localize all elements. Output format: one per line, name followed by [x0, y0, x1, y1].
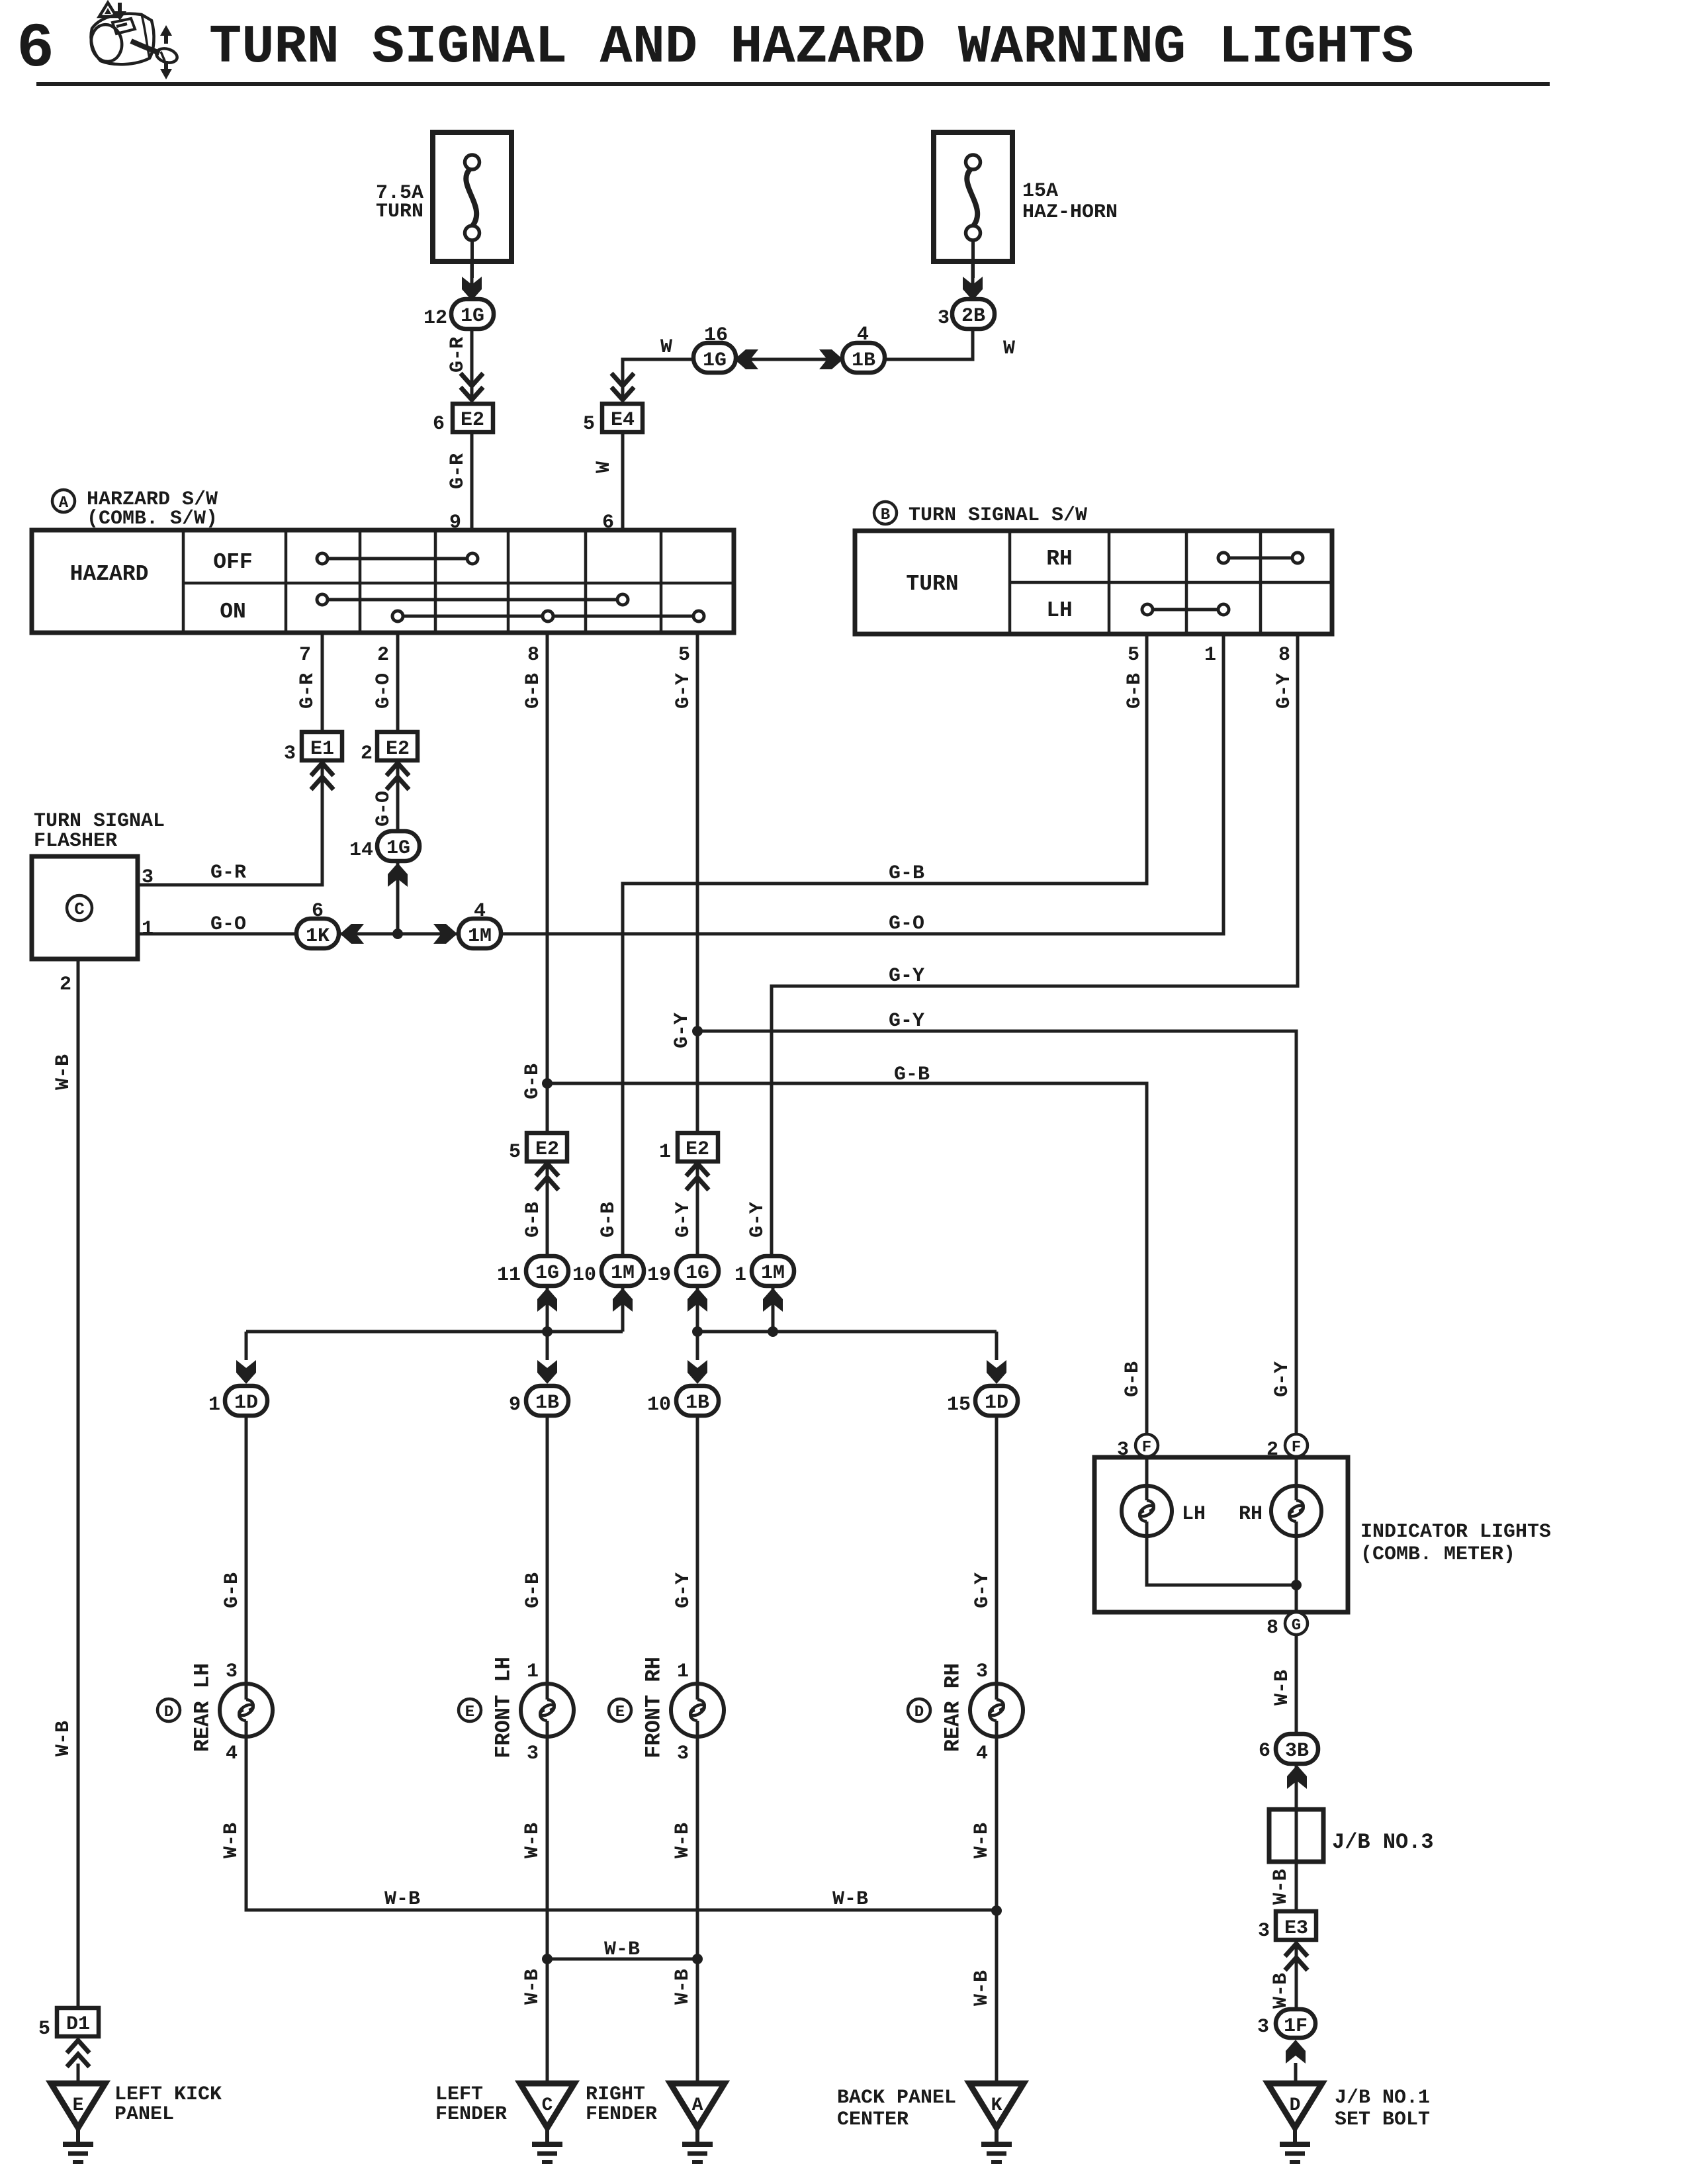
svg-text:W-B: W-B [1271, 1670, 1294, 1706]
svg-text:REAR LH: REAR LH [191, 1663, 215, 1752]
chevron into E2 [386, 763, 409, 790]
svg-text:3: 3 [527, 1743, 539, 1765]
arrow into 1M [613, 1288, 633, 1312]
chevron into E3 [1285, 1944, 1308, 1970]
svg-text:TURN SIGNAL AND HAZARD WARNING: TURN SIGNAL AND HAZARD WARNING LIGHTS [209, 17, 1414, 78]
svg-text:G-Y: G-Y [971, 1572, 994, 1608]
wire hazard pin2 to E2 [396, 633, 400, 733]
svg-text:K: K [991, 2095, 1002, 2116]
svg-text:J/B NO.3: J/B NO.3 [1332, 1830, 1434, 1854]
wire E2 down to junction [396, 760, 400, 934]
title underline [36, 82, 1550, 86]
title icon (combination switch drawing) [88, 3, 179, 65]
svg-text:G-B: G-B [522, 1572, 545, 1608]
svg-text:G-Y: G-Y [672, 1572, 695, 1608]
svg-text:2: 2 [60, 974, 71, 996]
svg-text:W-B: W-B [521, 1823, 544, 1858]
svg-text:LEFT KICK: LEFT KICK [114, 2083, 222, 2106]
svg-text:8: 8 [1278, 644, 1290, 666]
svg-text:2: 2 [361, 743, 373, 765]
svg-text:15: 15 [947, 1394, 971, 1416]
svg-text:G-B: G-B [894, 1064, 930, 1086]
svg-text:8: 8 [527, 644, 539, 666]
svg-text:W-B: W-B [384, 1888, 420, 1911]
svg-text:F: F [1292, 1439, 1301, 1457]
svg-text:3: 3 [677, 1743, 689, 1765]
wire front RH ground [696, 1737, 699, 2083]
svg-text:2: 2 [377, 644, 389, 666]
svg-text:ON: ON [220, 600, 246, 624]
junction node left bus [542, 1326, 553, 1337]
svg-text:LH: LH [1046, 598, 1073, 623]
svg-text:3: 3 [976, 1661, 988, 1683]
wire fuse2 to 2B and across to E4 [623, 261, 973, 530]
svg-text:W-B: W-B [1270, 1869, 1292, 1905]
svg-text:HAZARD: HAZARD [70, 562, 149, 586]
svg-text:G-Y: G-Y [1273, 673, 1296, 709]
svg-text:1G: 1G [703, 349, 727, 372]
svg-text:1M: 1M [611, 1262, 635, 1285]
svg-text:3: 3 [142, 866, 154, 889]
svg-text:G-B: G-B [522, 1202, 545, 1238]
svg-text:1: 1 [142, 918, 154, 940]
junction node right bus 2 [768, 1326, 778, 1337]
fuse 15A HAZ-HORN [934, 132, 1012, 261]
svg-text:RH: RH [1046, 547, 1073, 571]
svg-text:10: 10 [572, 1264, 596, 1287]
wire fuse1 to hazard pin 9 [470, 261, 474, 530]
svg-text:C: C [74, 899, 85, 919]
svg-text:4: 4 [226, 1743, 238, 1765]
svg-text:RIGHT: RIGHT [586, 2083, 645, 2106]
svg-text:7: 7 [299, 644, 311, 666]
arrow into 1D [987, 1360, 1006, 1384]
turn RH contact row [1223, 557, 1298, 560]
svg-text:HAZ-HORN: HAZ-HORN [1022, 201, 1118, 224]
svg-text:5: 5 [1128, 644, 1139, 666]
lamp REAR LH bulb [157, 1699, 180, 1721]
arrow into 1B [537, 1360, 557, 1384]
svg-text:3B: 3B [1285, 1740, 1309, 1762]
svg-text:1D: 1D [234, 1392, 258, 1414]
wire G-Y branch to indicator RH [697, 1031, 1296, 1434]
arrow into 1G [688, 1288, 707, 1312]
svg-text:CENTER: CENTER [837, 2109, 909, 2131]
svg-text:8: 8 [1266, 1617, 1278, 1639]
wire hazard pin8 down [546, 633, 549, 1255]
indicator LH bulb [1122, 1486, 1172, 1536]
svg-text:4: 4 [976, 1743, 988, 1765]
svg-text:2B: 2B [961, 305, 985, 328]
svg-text:W-B: W-B [604, 1938, 640, 1961]
svg-text:E2: E2 [386, 738, 410, 760]
chevron into E2 [536, 1163, 558, 1190]
ground A right fender [670, 2083, 725, 2128]
wire front fender tie [547, 1958, 697, 1961]
svg-text:W-B: W-B [521, 1969, 544, 2005]
ground C left fender [520, 2083, 574, 2128]
svg-text:W: W [593, 461, 615, 473]
arrow into 1F [1286, 2040, 1306, 2064]
svg-text:G-R: G-R [447, 337, 469, 373]
wire G-B branch to indicator LH [547, 1083, 1147, 1434]
svg-text:E2: E2 [686, 1138, 709, 1161]
svg-text:1K: 1K [306, 925, 330, 948]
fuse 7.5A TURN [433, 132, 511, 261]
svg-text:G-O: G-O [373, 673, 395, 709]
svg-text:LEFT: LEFT [435, 2083, 483, 2106]
turn switch label [874, 502, 897, 524]
svg-text:10: 10 [647, 1394, 671, 1416]
ground K back panel center [969, 2083, 1024, 2128]
svg-text:12: 12 [423, 307, 447, 330]
wire flasher pin1 G-O run to turn pin1 [138, 634, 1223, 934]
svg-text:G-O: G-O [889, 913, 924, 935]
junction node right bus 1 [692, 1326, 703, 1337]
svg-text:W-B: W-B [52, 1721, 75, 1756]
svg-text:W-B: W-B [971, 1823, 993, 1858]
svg-text:G-B: G-B [522, 673, 545, 709]
svg-text:FRONT RH: FRONT RH [642, 1657, 666, 1758]
hazard OFF contact row [322, 557, 472, 561]
svg-text:W-B: W-B [971, 1970, 993, 2006]
wire rear RH ground [995, 1737, 999, 2083]
svg-text:LH: LH [1182, 1503, 1206, 1525]
svg-text:1: 1 [659, 1141, 671, 1163]
junction node G-B [542, 1078, 553, 1089]
svg-text:FRONT LH: FRONT LH [492, 1657, 516, 1758]
svg-text:1: 1 [734, 1264, 746, 1287]
svg-text:G-R: G-R [447, 453, 469, 489]
svg-text:5: 5 [678, 644, 690, 666]
svg-text:C: C [542, 2095, 553, 2116]
svg-text:3: 3 [1258, 1920, 1270, 1942]
svg-text:E2: E2 [461, 409, 484, 432]
junction node G-O [392, 929, 403, 939]
svg-text:E3: E3 [1284, 1917, 1308, 1940]
wire left bus [246, 1286, 623, 1360]
junction node front RH [692, 1954, 703, 1964]
svg-text:1B: 1B [535, 1392, 559, 1414]
junction node G-Y [692, 1026, 703, 1036]
wire E3 to 1F [1295, 1940, 1298, 2010]
svg-text:5: 5 [509, 1141, 521, 1163]
chevron into E2 (6) [461, 373, 483, 400]
svg-text:1M: 1M [761, 1262, 785, 1285]
svg-text:PANEL: PANEL [114, 2103, 174, 2126]
svg-text:TURN: TURN [906, 572, 958, 596]
wire G to 3B [1295, 1635, 1298, 1809]
svg-text:E1: E1 [310, 738, 334, 760]
svg-text:1: 1 [208, 1394, 220, 1416]
svg-text:1M: 1M [468, 925, 492, 948]
svg-text:1G: 1G [461, 305, 484, 328]
svg-text:INDICATOR LIGHTS: INDICATOR LIGHTS [1360, 1521, 1551, 1543]
arrow into 1G (12) [462, 277, 482, 300]
svg-text:D1: D1 [66, 2013, 90, 2036]
svg-text:G-B: G-B [1124, 673, 1146, 709]
junction node front LH [542, 1954, 553, 1964]
wire E1 down to flasher pin3 wire [138, 760, 322, 885]
svg-text:W-B: W-B [832, 1888, 868, 1911]
svg-text:OFF: OFF [213, 550, 252, 574]
wire rear LH ground [246, 1737, 997, 1910]
wire front LH ground [546, 1737, 549, 2083]
ground D J/B NO.1 set bolt [1268, 2083, 1322, 2128]
arrow into 3B [1287, 1765, 1307, 1789]
wire to lamp FRONT RH [696, 1416, 699, 1685]
svg-text:G: G [1292, 1617, 1301, 1635]
svg-text:FLASHER: FLASHER [34, 830, 117, 852]
wire hazard pin7 to E1 [321, 633, 324, 733]
arrow into 1M [763, 1288, 783, 1312]
svg-text:14: 14 [349, 839, 373, 862]
arrow into 1G [388, 863, 408, 887]
svg-text:G-Y: G-Y [746, 1202, 769, 1238]
wire indicator RH bulb [1295, 1457, 1298, 1612]
svg-text:1G: 1G [535, 1262, 559, 1285]
svg-text:BACK PANEL: BACK PANEL [837, 2087, 956, 2109]
svg-text:6: 6 [1259, 1740, 1270, 1762]
svg-text:9: 9 [509, 1394, 521, 1416]
svg-text:3: 3 [226, 1661, 238, 1683]
chevron into E4 (5) [611, 373, 634, 400]
svg-text:(COMB. METER): (COMB. METER) [1360, 1543, 1515, 1566]
indicator lights box [1094, 1457, 1348, 1612]
svg-text:1: 1 [527, 1661, 539, 1683]
svg-text:G-B: G-B [221, 1572, 244, 1608]
wire J/B3 to E3 [1295, 1862, 1298, 1912]
svg-text:E2: E2 [535, 1138, 559, 1161]
svg-text:11: 11 [497, 1264, 521, 1287]
wire 1F to ground D [1294, 2063, 1298, 2083]
svg-text:TURN: TURN [376, 201, 423, 223]
junction block J/B NO.3 [1269, 1809, 1323, 1862]
lamp FRONT LH bulb [459, 1699, 481, 1721]
hazard ON contact row lower [398, 615, 699, 618]
svg-text:G-B: G-B [598, 1202, 620, 1238]
wire to lamp FRONT LH [546, 1416, 549, 1685]
wire G-Y turn pin8 run [772, 634, 1298, 1255]
svg-text:1: 1 [677, 1661, 689, 1683]
svg-text:W-B: W-B [52, 1054, 75, 1090]
wire hazard pin5 down [696, 633, 699, 1255]
svg-text:REAR RH: REAR RH [941, 1663, 965, 1752]
lamp FRONT RH bulb [609, 1699, 631, 1721]
arrow into 1G [537, 1288, 557, 1312]
svg-text:G-Y: G-Y [889, 965, 924, 987]
svg-text:G-Y: G-Y [671, 1013, 693, 1048]
lamp REAR RH bulb [908, 1699, 930, 1721]
chevron into D1 [67, 2040, 89, 2067]
turn LH contact row [1147, 608, 1223, 612]
svg-text:E4: E4 [611, 409, 635, 432]
svg-text:5: 5 [38, 2018, 50, 2040]
svg-text:W-B: W-B [220, 1823, 243, 1858]
svg-text:1G: 1G [386, 837, 410, 860]
svg-text:G-B: G-B [521, 1064, 544, 1099]
svg-text:W: W [660, 336, 672, 359]
svg-text:1D: 1D [985, 1392, 1008, 1414]
junction node indicator [1291, 1580, 1302, 1590]
hazard switch label [52, 490, 75, 512]
svg-text:G-Y: G-Y [672, 1202, 695, 1238]
svg-text:1G: 1G [686, 1262, 709, 1285]
wire indicator LH bulb [1147, 1457, 1296, 1585]
svg-text:J/B NO.1: J/B NO.1 [1335, 2087, 1430, 2109]
svg-text:1B: 1B [686, 1392, 709, 1414]
svg-text:6: 6 [433, 413, 445, 435]
ground E left kick panel [51, 2083, 105, 2128]
turn signal switch B box [855, 531, 1332, 634]
svg-text:W-B: W-B [672, 1823, 694, 1858]
svg-text:G-B: G-B [889, 862, 924, 885]
svg-text:G-R: G-R [210, 862, 246, 884]
svg-text:3: 3 [1257, 2016, 1269, 2038]
svg-text:1: 1 [1204, 644, 1216, 666]
svg-text:1B: 1B [852, 349, 875, 372]
svg-text:B: B [881, 506, 890, 524]
svg-text:W-B: W-B [1270, 1973, 1292, 2009]
svg-text:19: 19 [647, 1264, 671, 1287]
wire D1 to ground [77, 2064, 80, 2083]
svg-text:5: 5 [583, 413, 595, 435]
svg-text:TURN SIGNAL S/W: TURN SIGNAL S/W [909, 504, 1087, 527]
wire to lamp REAR LH [245, 1416, 248, 1685]
svg-text:W: W [1003, 338, 1015, 360]
svg-text:G-O: G-O [210, 913, 246, 936]
svg-text:FENDER: FENDER [435, 2103, 507, 2126]
svg-text:G-Y: G-Y [889, 1010, 924, 1032]
svg-text:G-O: G-O [373, 791, 395, 827]
svg-text:A: A [59, 494, 69, 512]
svg-text:D: D [1290, 2095, 1301, 2116]
svg-text:1F: 1F [1284, 2015, 1308, 2038]
svg-text:W-B: W-B [672, 1969, 694, 2005]
wire left bus drop [546, 1332, 549, 1360]
svg-text:TURN SIGNAL: TURN SIGNAL [34, 810, 165, 833]
svg-text:A: A [692, 2095, 703, 2116]
flasher C box [32, 856, 138, 959]
arrow into 1B [688, 1360, 707, 1384]
svg-text:3: 3 [938, 307, 950, 330]
svg-text:F: F [1142, 1439, 1151, 1457]
svg-text:G-R: G-R [296, 673, 319, 709]
wire G-B turn pin5 run [623, 634, 1147, 1255]
svg-text:E: E [73, 2095, 84, 2116]
chevron into E2 [686, 1163, 709, 1190]
hazard switch A box [32, 530, 734, 633]
arrow into 1D [236, 1360, 256, 1384]
svg-text:G-Y: G-Y [1271, 1361, 1294, 1397]
svg-text:SET BOLT: SET BOLT [1335, 2109, 1430, 2131]
svg-text:FENDER: FENDER [586, 2103, 657, 2126]
hazard ON contact row upper [322, 598, 623, 602]
svg-text:D: D [914, 1704, 924, 1721]
chevron into E1 [311, 763, 333, 790]
svg-text:E: E [465, 1704, 474, 1721]
svg-text:G-Y: G-Y [672, 673, 695, 709]
wire right bus [697, 1286, 997, 1360]
svg-text:6: 6 [17, 13, 54, 85]
wire flasher pin2 W-B down to D1 [77, 959, 80, 2007]
svg-text:15A: 15A [1022, 180, 1058, 203]
junction node rear ground [991, 1905, 1002, 1916]
svg-text:(COMB. S/W): (COMB. S/W) [87, 508, 218, 530]
svg-text:RH: RH [1239, 1503, 1263, 1525]
svg-text:G-B: G-B [1122, 1361, 1144, 1397]
svg-text:3: 3 [284, 743, 296, 765]
arrow into 2B [963, 277, 983, 300]
svg-text:E: E [615, 1704, 625, 1721]
wire to lamp REAR RH [995, 1416, 999, 1685]
svg-text:D: D [164, 1704, 173, 1721]
